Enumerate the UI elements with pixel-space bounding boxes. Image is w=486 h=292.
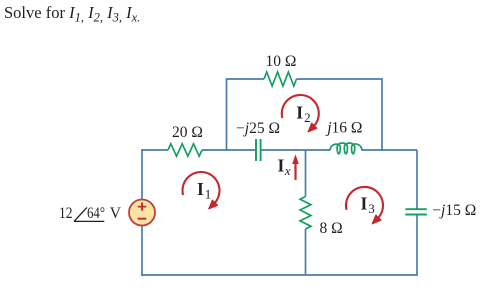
svg-text:I: I — [278, 156, 285, 176]
svg-text:V: V — [110, 205, 122, 222]
svg-text:12: 12 — [59, 205, 73, 222]
wire: left vertical through source — [141, 149, 143, 276]
resistor 10 ohm (top) — [264, 72, 297, 86]
branch current arrow Ix — [278, 154, 299, 180]
capacitor -j15 ohm plates — [405, 209, 426, 214]
title text — [4, 3, 140, 25]
wire: middle horizontal, -j25 capacitor to j16 inductor — [261, 149, 330, 151]
wire: right vertical lower segment — [416, 215, 418, 275]
wire: middle vertical branch lower segment — [305, 229, 307, 275]
svg-text:1: 1 — [205, 186, 212, 201]
svg-text:20 Ω: 20 Ω — [172, 124, 203, 141]
svg-text:−j25 Ω: −j25 Ω — [236, 120, 280, 137]
resistor 8 ohm (vertical) — [300, 197, 311, 230]
wire: bottom horizontal — [141, 274, 418, 276]
wire: middle horizontal, 20-ohm to -j25 capacitor — [202, 149, 256, 151]
svg-text:10 Ω: 10 Ω — [266, 53, 297, 70]
mesh arrow I2 — [282, 95, 319, 132]
wire: middle horizontal, source corner to 20-ohm resistor — [142, 149, 168, 151]
svg-text:I: I — [361, 194, 368, 214]
svg-text:I: I — [296, 102, 303, 122]
wire: middle vertical branch upper segment — [305, 150, 307, 197]
wire: middle horizontal, j16 inductor to right corner — [362, 149, 418, 151]
inductor j16 ohm — [330, 143, 362, 154]
wire: upper box left vertical and top-left segment — [227, 79, 265, 151]
capacitor -j25 ohm plates — [256, 139, 261, 161]
svg-text:j16 Ω: j16 Ω — [325, 119, 362, 136]
svg-text:−j15 Ω: −j15 Ω — [432, 202, 476, 219]
resistor 20 ohm (middle wire) — [168, 144, 202, 156]
svg-text:Solve for I1, I2, I3, Ix.: Solve for I1, I2, I3, Ix. — [4, 3, 140, 25]
wire: right vertical upper segment — [416, 150, 418, 209]
svg-text:8 Ω: 8 Ω — [320, 220, 343, 237]
svg-text:2: 2 — [304, 110, 311, 125]
wire: upper box top-right segment and right vertical — [297, 79, 383, 151]
svg-text:3: 3 — [368, 201, 375, 216]
svg-text:64°: 64° — [87, 205, 105, 222]
mesh arrow I1 — [183, 172, 220, 209]
svg-text:x: x — [284, 163, 291, 178]
voltage source 12/64 V — [129, 200, 155, 226]
svg-text:I: I — [197, 179, 204, 199]
mesh arrow I3 — [346, 187, 383, 224]
